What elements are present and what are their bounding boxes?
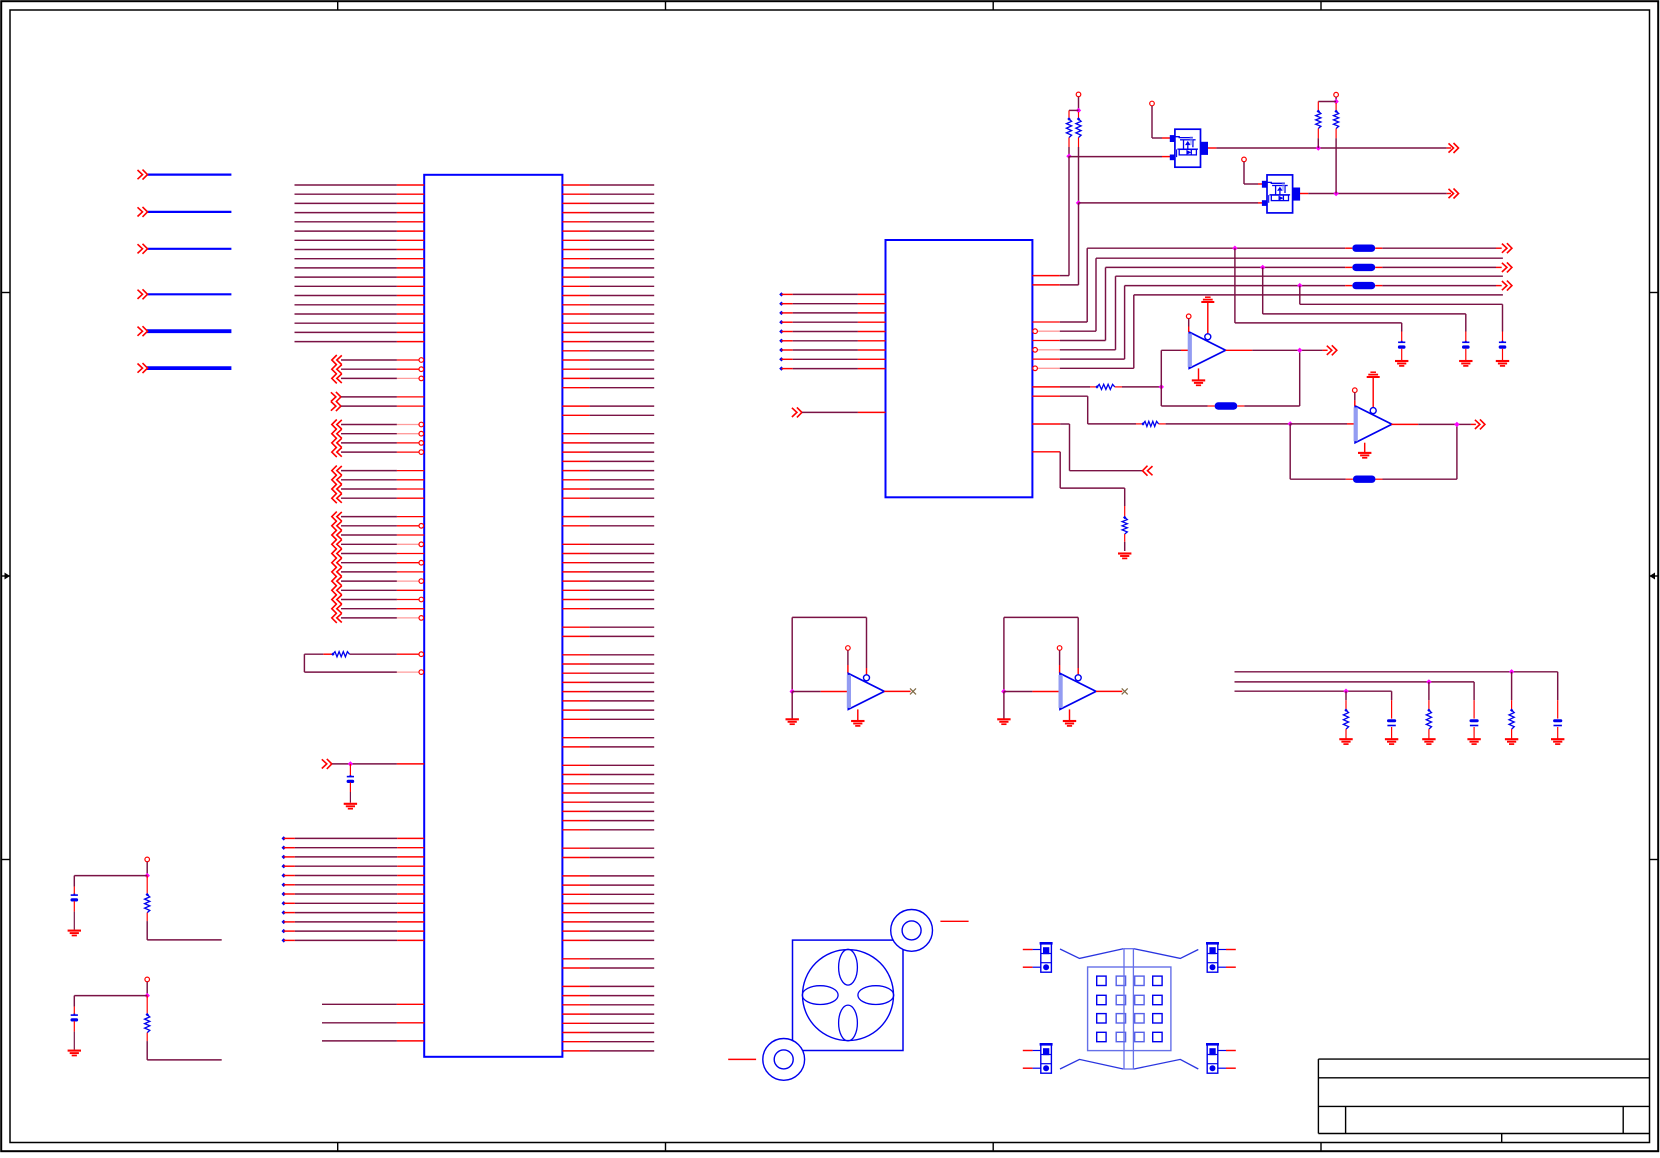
wire G1 to Q1 gate bbox=[1151, 106, 1153, 138]
U2 bus pin 2 wire bbox=[1032, 330, 1059, 332]
ground at R9 bbox=[1422, 738, 1435, 740]
fan wire plus bbox=[940, 920, 968, 922]
U1 left pin group-E 4 bbox=[332, 539, 342, 549]
U1 pin circle loop-a bbox=[419, 652, 424, 657]
U2 left diamond pin 7 bbox=[779, 348, 783, 352]
U1 left pin group-C 4 bbox=[332, 447, 342, 457]
wire junction to Q2 source bbox=[1079, 202, 1259, 204]
top-left lead wave bbox=[1060, 949, 1123, 959]
resistor R4 body bbox=[1334, 110, 1337, 113]
U1 right pin 37 wire bbox=[562, 516, 589, 518]
junction Q1 net / R3 bbox=[1316, 145, 1321, 150]
U1 left pin group-C 3 bbox=[332, 438, 342, 448]
core pad r4c2 bbox=[1116, 1032, 1125, 1041]
U5 gnd stub bottom bbox=[857, 709, 859, 720]
U3 non-inv wire bbox=[1188, 319, 1190, 327]
U1 right pin 56 wire bbox=[562, 691, 589, 693]
U1 right pin 16 wire bbox=[562, 322, 589, 324]
U1 right pin 41 wire bbox=[562, 553, 589, 555]
U2 return wire to arrow bbox=[1032, 423, 1060, 425]
wire junction to R3 top bbox=[1318, 101, 1336, 103]
R3 lower lead bbox=[1317, 129, 1319, 139]
U1 left pin 15 wire bbox=[295, 313, 397, 315]
U1 right pin 58 wire bbox=[562, 709, 589, 711]
R6 right lead bbox=[1159, 423, 1166, 425]
top-right lead wave bbox=[1134, 949, 1198, 959]
U2 left diamond pin 3 bbox=[779, 311, 783, 315]
U1 right pin 71 wire bbox=[562, 829, 589, 831]
U1 left pin 13 wire bbox=[295, 295, 397, 297]
U1 right pin 34 wire bbox=[562, 488, 589, 490]
U1 right pin 94 wire bbox=[562, 1041, 589, 1043]
bus line 5 exit arrow bbox=[1502, 281, 1512, 291]
resistor R10 body bbox=[1344, 709, 1347, 712]
U1 right pin 38 wire bbox=[562, 525, 589, 527]
U1 right pin 19 wire bbox=[562, 350, 589, 352]
connector J2 bbox=[1207, 944, 1218, 972]
U1 left pin group-E 10 bbox=[332, 595, 342, 605]
capacitor C1 body bbox=[1553, 719, 1562, 722]
RC1R lower lead bbox=[146, 913, 148, 922]
U4 non-inv wire bbox=[1354, 393, 1356, 401]
U2 pin to R5 wire bbox=[1032, 386, 1060, 388]
bus line 4 bbox=[1116, 275, 1503, 277]
decoupling capacitor C-bus2 bbox=[1462, 341, 1469, 343]
bus line 3 exit arrow bbox=[1502, 262, 1512, 272]
ground at R10 bbox=[1339, 738, 1352, 740]
U4 output exit arrow bbox=[1475, 419, 1485, 429]
bus line 5 bbox=[1125, 285, 1346, 287]
U2 left diamond pin 2 bbox=[779, 302, 783, 306]
bus line 1 bbox=[1087, 247, 1345, 249]
U1 left pin 2 wire bbox=[295, 193, 397, 195]
RC1 pin wire bbox=[146, 862, 148, 876]
fan rotor circle bbox=[803, 950, 894, 1041]
bus tap wire 1 bbox=[1234, 248, 1236, 323]
U5 output wire bbox=[884, 690, 910, 692]
U1 left pin 5 wire bbox=[295, 221, 397, 223]
U2 bus pin 4 wire bbox=[1032, 349, 1059, 351]
U1 left pin 12 wire bbox=[295, 285, 397, 287]
capacitor C3 body bbox=[1387, 719, 1396, 722]
U1 right pin 20 wire bbox=[562, 359, 589, 361]
U3 feedback lower wire bbox=[1161, 405, 1207, 407]
resistor RC2R body bbox=[146, 1013, 149, 1016]
ground at R7 bbox=[1118, 552, 1131, 554]
U1 left pin 18 wire bbox=[295, 341, 397, 343]
U1 left diamond pin 5 bbox=[282, 873, 286, 877]
junction P2 bbox=[1333, 99, 1338, 104]
title block divider b bbox=[1622, 1106, 1624, 1133]
U1 right pin 50 wire bbox=[562, 635, 589, 637]
termination capacitor C3 wire bbox=[1391, 691, 1393, 700]
U1 right pin 29 wire bbox=[562, 442, 589, 444]
U1 right pin 2 wire bbox=[562, 193, 589, 195]
C1 lower lead bbox=[1557, 727, 1559, 739]
core pad r4c3 bbox=[1135, 1032, 1144, 1041]
right border centre arrow bbox=[1650, 575, 1659, 577]
U1 left diamond pin 1 bbox=[282, 836, 286, 840]
U6 feedback wire bbox=[1003, 617, 1005, 691]
fan frame bbox=[793, 940, 904, 1050]
U1 left pin group-D 2 bbox=[332, 475, 342, 485]
U1 right pin 13 wire bbox=[562, 295, 589, 297]
ground at C-bus1 bbox=[1395, 360, 1408, 362]
R2 lower lead bbox=[1078, 138, 1080, 148]
bus tap junction 2 bbox=[1260, 265, 1265, 270]
title block row line 1 bbox=[1318, 1077, 1649, 1079]
right border zone tick 2 bbox=[1650, 859, 1659, 861]
sheet entry arrow 3 bbox=[138, 244, 148, 254]
connector J4 bbox=[1207, 1045, 1218, 1073]
U1 left pin group-E 7 bbox=[332, 567, 342, 577]
U1 right pin 62 wire bbox=[562, 746, 589, 748]
U6 inv input wire bbox=[1004, 691, 1033, 693]
U2 left diamond pin 6 bbox=[779, 339, 783, 343]
U1 right pin 17 wire bbox=[562, 331, 589, 333]
bus tap wire 3 bbox=[1299, 286, 1301, 305]
transformer core box bbox=[1088, 967, 1171, 1051]
U1 right pin 1 wire bbox=[562, 184, 589, 186]
bottom-right lead wave bbox=[1134, 1059, 1198, 1069]
sheet entry arrow 4 bbox=[138, 289, 148, 299]
U1 left pin 14 wire bbox=[295, 304, 397, 306]
RC1 branch wire bbox=[74, 875, 147, 877]
resistor R5 body bbox=[1095, 385, 1098, 388]
U2 left diamond pin 8 bbox=[779, 357, 783, 361]
U1 left pin group-D 3 bbox=[332, 484, 342, 494]
ground U5 left bbox=[786, 718, 799, 720]
U1 right pin 93 wire bbox=[562, 1032, 589, 1034]
U2 bus pin 5 wire bbox=[1032, 358, 1059, 360]
junction Q2 net / R4 bbox=[1333, 191, 1338, 196]
U1 left diamond pin 4 bbox=[282, 864, 286, 868]
C3 lower lead bbox=[1391, 727, 1393, 739]
U4 ground stub bbox=[1364, 443, 1366, 453]
U1 right pin 88 wire bbox=[562, 985, 589, 987]
R2 top lead bbox=[1078, 112, 1080, 119]
U2 bus pin 6 wire bbox=[1032, 367, 1059, 369]
U3 output wire bbox=[1226, 349, 1253, 351]
title block row line 2 bbox=[1318, 1105, 1649, 1107]
U2 bus pin 3 wire bbox=[1032, 340, 1059, 342]
U1 left pin group-E 5 bbox=[332, 549, 342, 559]
U6 gnd wire left bbox=[1003, 692, 1005, 719]
U1 left pin group-E 1 bbox=[332, 512, 342, 522]
core pad r3c4 bbox=[1153, 1014, 1162, 1023]
U2 sense wire to R7 bbox=[1032, 451, 1060, 453]
U1 right pin 64 wire bbox=[562, 764, 589, 766]
fan wire minus bbox=[728, 1058, 756, 1060]
resistor RC1R body bbox=[146, 893, 149, 896]
U1 left diamond pin 10 bbox=[282, 920, 286, 924]
U1 left diamond pin 6 bbox=[282, 883, 286, 887]
RC2 pin wire bbox=[146, 982, 148, 996]
U1 left pin group-C 2 bbox=[332, 429, 342, 439]
U1 right pin 15 wire bbox=[562, 313, 589, 315]
U3 ground stub bbox=[1198, 368, 1200, 379]
termination resistor R10 bbox=[1345, 691, 1347, 700]
op-amp U4 bbox=[1355, 406, 1392, 443]
U1 right pin 70 wire bbox=[562, 820, 589, 822]
U1 right pin 81 wire bbox=[562, 921, 589, 923]
U1 right pin 5 wire bbox=[562, 221, 589, 223]
capacitor RC2C body bbox=[71, 1014, 78, 1016]
U1 right pin 40 wire bbox=[562, 543, 589, 545]
junction P1 bbox=[1076, 108, 1081, 113]
U1 right pin 7 wire bbox=[562, 239, 589, 241]
ground at C1 bbox=[1551, 738, 1564, 740]
left border zone tick 2 bbox=[1, 859, 10, 861]
U1 right pin 83 wire bbox=[562, 939, 589, 941]
C2 lower lead bbox=[1473, 727, 1475, 739]
U1 bottom-left pin 1 bbox=[322, 1003, 397, 1005]
bottom border zone tick 4 bbox=[1320, 1143, 1322, 1152]
U1 right pin 32 wire bbox=[562, 470, 589, 472]
U1 right pin 77 wire bbox=[562, 884, 589, 886]
U1 right pin 53 wire bbox=[562, 663, 589, 665]
U1 left diamond pin 8 bbox=[282, 901, 286, 905]
U1 left pin group-A 2 bbox=[332, 364, 342, 374]
R5 right lead bbox=[1115, 386, 1122, 388]
top border zone tick 1 bbox=[337, 1, 339, 10]
U2 pin to R6 wire bbox=[1032, 395, 1060, 397]
core pad r4c1 bbox=[1097, 1032, 1106, 1041]
title block outline bbox=[1318, 1058, 1649, 1060]
U2 bus pin 1 wire bbox=[1032, 321, 1059, 323]
U4 power bubble bbox=[1370, 408, 1376, 414]
R10 lower lead bbox=[1345, 729, 1347, 739]
U6 no-erc cross bbox=[1122, 688, 1128, 694]
U1 right pin 46 wire bbox=[562, 599, 589, 601]
U1 right pin 14 wire bbox=[562, 304, 589, 306]
fan terminal ring top bbox=[891, 910, 933, 952]
top border zone tick 2 bbox=[665, 1, 667, 10]
sheet entry arrow 1 bbox=[138, 170, 148, 180]
decoupling capacitor C-bus3 bbox=[1499, 341, 1506, 343]
U1 right pin 86 wire bbox=[562, 967, 589, 969]
junction RC1 bbox=[145, 873, 150, 878]
U1 bottom-left pin 3 bbox=[322, 1040, 397, 1042]
U4 inverting input wire bbox=[1290, 423, 1347, 425]
ferrite bead FB3 bbox=[1352, 282, 1375, 289]
power pin P1 circle bbox=[1076, 92, 1081, 97]
U5 gnd wire left bbox=[791, 692, 793, 719]
ground at R8 bbox=[1505, 738, 1518, 740]
termination line 3 bbox=[1235, 690, 1392, 692]
ferrite bead FB2 bbox=[1352, 264, 1375, 271]
U1 right pin 89 wire bbox=[562, 995, 589, 997]
sheet entry arrow 6 bbox=[138, 363, 148, 373]
op-amp U6 bbox=[1060, 673, 1096, 709]
bus tap wire 2 bbox=[1262, 267, 1264, 314]
core pad r2c3 bbox=[1135, 995, 1144, 1004]
resistor R6 body bbox=[1141, 422, 1144, 425]
U1 left pin 8 wire bbox=[295, 249, 397, 251]
U1 right pin 91 wire bbox=[562, 1013, 589, 1015]
Q1 net exit arrow bbox=[1449, 143, 1459, 153]
U1 right pin 95 wire bbox=[562, 1050, 589, 1052]
junction U5 in bbox=[790, 689, 795, 694]
cap C-bus2 lower lead bbox=[1465, 349, 1467, 361]
Q2 drain wire bbox=[1300, 193, 1308, 195]
termination capacitor C1 wire bbox=[1557, 672, 1559, 700]
ground at C-bus3 bbox=[1496, 360, 1509, 362]
capacitor RC1C body bbox=[71, 894, 78, 896]
U1 right pin 57 wire bbox=[562, 700, 589, 702]
U1 left pin group-C 1 bbox=[332, 420, 342, 430]
U2 left diamond pin 4 bbox=[779, 320, 783, 324]
FB4 right lead bbox=[1237, 405, 1244, 407]
IC U1 body bbox=[424, 175, 562, 1057]
U1 right pin 78 wire bbox=[562, 893, 589, 895]
U1 left diamond pin 12 bbox=[282, 938, 286, 942]
U6 input pin wire bbox=[1059, 650, 1061, 665]
U5 bubble bbox=[864, 675, 870, 681]
termination resistor R9 bbox=[1428, 682, 1430, 700]
U1 right pin 65 wire bbox=[562, 774, 589, 776]
resistor R-loop body bbox=[331, 653, 334, 656]
U1 right pin 90 wire bbox=[562, 1004, 589, 1006]
bus line 1 exit arrow bbox=[1502, 243, 1512, 253]
termination line 2 bbox=[1235, 681, 1475, 683]
U1 right pin 31 wire bbox=[562, 460, 589, 462]
core pad r1c3 bbox=[1135, 976, 1144, 985]
U1 left pin group-E 6 bbox=[332, 558, 342, 568]
core pad r1c1 bbox=[1097, 976, 1106, 985]
U1 right pin 92 wire bbox=[562, 1022, 589, 1024]
bottom border zone tick 1 bbox=[337, 1143, 339, 1152]
U1 left pin 16 wire bbox=[295, 322, 397, 324]
U6 input pin circle bbox=[1057, 646, 1062, 651]
U1 left pin 4 wire bbox=[295, 212, 397, 214]
U1 right pin 28 wire bbox=[562, 433, 589, 435]
U1 right pin 82 wire bbox=[562, 930, 589, 932]
U1 right pin 45 wire bbox=[562, 589, 589, 591]
U2 left arrow pin bbox=[792, 407, 802, 417]
U1 left diamond pin 11 bbox=[282, 929, 286, 933]
U1 right pin 76 wire bbox=[562, 875, 589, 877]
U1 left diamond pin 9 bbox=[282, 910, 286, 914]
U1 left pin group-E 8 bbox=[332, 576, 342, 586]
U1 left pin 9 wire bbox=[295, 258, 397, 260]
junction R1/Q1 bbox=[1066, 154, 1071, 159]
bottom border zone tick 2 bbox=[665, 1143, 667, 1152]
bus tap junction 1 bbox=[1232, 246, 1237, 251]
U2 pin DRV1 wire bbox=[1032, 275, 1059, 277]
U1 right pin 3 wire bbox=[562, 202, 589, 204]
resistor R7 body bbox=[1123, 516, 1126, 519]
return entry arrow bbox=[1143, 466, 1153, 476]
U1 left pin 6 wire bbox=[295, 230, 397, 232]
wire G2 to Q2 gate bbox=[1243, 162, 1245, 184]
U1 left pin group-D 1 bbox=[332, 466, 342, 476]
ferrite bead FB1 bbox=[1352, 245, 1375, 252]
U1 right pin 54 wire bbox=[562, 672, 589, 674]
resistor R2 body bbox=[1077, 117, 1080, 120]
Q2 net exit arrow bbox=[1449, 189, 1459, 199]
ground at C2 bbox=[1467, 738, 1480, 740]
R4 lower lead bbox=[1335, 129, 1337, 139]
U1 right pin 67 wire bbox=[562, 792, 589, 794]
bus line 3 bbox=[1106, 266, 1346, 268]
U5 feedback wire bbox=[791, 617, 793, 691]
resistor R3 body bbox=[1317, 110, 1320, 113]
U1 left pin 17 wire bbox=[295, 331, 397, 333]
termination capacitor C2 wire bbox=[1473, 682, 1475, 700]
U1 left pin 1 wire bbox=[295, 184, 397, 186]
U1 right pin 6 wire bbox=[562, 230, 589, 232]
U1 left pin group-B 1 bbox=[331, 392, 341, 402]
top border zone tick 3 bbox=[992, 1, 994, 10]
U1 right pin 9 wire bbox=[562, 258, 589, 260]
junction RC2 bbox=[145, 993, 150, 998]
U1 right pin 10 wire bbox=[562, 267, 589, 269]
U3 power flag bbox=[1205, 296, 1211, 298]
R8 lower lead bbox=[1511, 729, 1513, 739]
U1 right pin 49 wire bbox=[562, 626, 589, 628]
junction at C-in bbox=[348, 761, 353, 766]
U1 pin circle loop-b bbox=[419, 670, 424, 675]
bus tap junction 3 bbox=[1297, 283, 1302, 288]
fan blade left bbox=[802, 986, 838, 1005]
U1 right pin 11 wire bbox=[562, 276, 589, 278]
sheet entry arrow 5 bbox=[138, 326, 148, 336]
ground at U4 bbox=[1358, 452, 1371, 454]
U3 non-inv pin circle bbox=[1186, 314, 1191, 319]
capacitor C2 body bbox=[1470, 719, 1479, 722]
fan blade bottom bbox=[839, 1005, 858, 1041]
sheet entry line 5 bbox=[147, 329, 232, 333]
U1 right pin 23 wire bbox=[562, 387, 589, 389]
left border centre arrow bbox=[1, 575, 10, 577]
U1 left pin group-E 3 bbox=[332, 530, 342, 540]
core pad r3c3 bbox=[1135, 1014, 1144, 1023]
ground at U3 bbox=[1192, 379, 1205, 381]
left border zone tick 1 bbox=[1, 292, 10, 294]
ferrite bead FB5 bbox=[1353, 476, 1376, 483]
U1 right pin 12 wire bbox=[562, 285, 589, 287]
RC1C lower lead bbox=[73, 901, 75, 912]
U1 right pin 33 wire bbox=[562, 479, 589, 481]
junction U6 in bbox=[1001, 689, 1006, 694]
core pad r2c2 bbox=[1116, 995, 1125, 1004]
U3 inverting input wire bbox=[1160, 350, 1162, 406]
U1 right pin 25 wire bbox=[562, 405, 589, 407]
R9 lower lead bbox=[1428, 729, 1430, 739]
U2 left diamond pin 9 bbox=[779, 366, 783, 370]
U3 output exit arrow bbox=[1327, 345, 1337, 355]
junction term 1 bbox=[1509, 669, 1514, 674]
U1 left pin 7 wire bbox=[295, 239, 397, 241]
transistor Q2 bbox=[1267, 175, 1293, 213]
U1 test input wire bbox=[322, 759, 332, 769]
resistor R8 body bbox=[1510, 709, 1513, 712]
ground at C-bus2 bbox=[1459, 360, 1472, 362]
resistor R-loop leads and wires bbox=[350, 653, 397, 655]
U3 power bubble bbox=[1205, 334, 1211, 340]
U1 left pin group-B 2 bbox=[331, 401, 341, 411]
U6 gnd stub bottom bbox=[1069, 709, 1071, 720]
core pad r2c1 bbox=[1097, 995, 1106, 1004]
RC1 resistor lead bbox=[146, 876, 148, 895]
fan terminal ring bottom bbox=[763, 1039, 805, 1081]
connector J3 bbox=[1041, 1045, 1052, 1073]
sheet entry line 3 bbox=[147, 248, 232, 250]
U4 power flag bbox=[1370, 371, 1376, 373]
sheet entry line 2 bbox=[147, 211, 232, 213]
junction U3 output bbox=[1297, 348, 1302, 353]
